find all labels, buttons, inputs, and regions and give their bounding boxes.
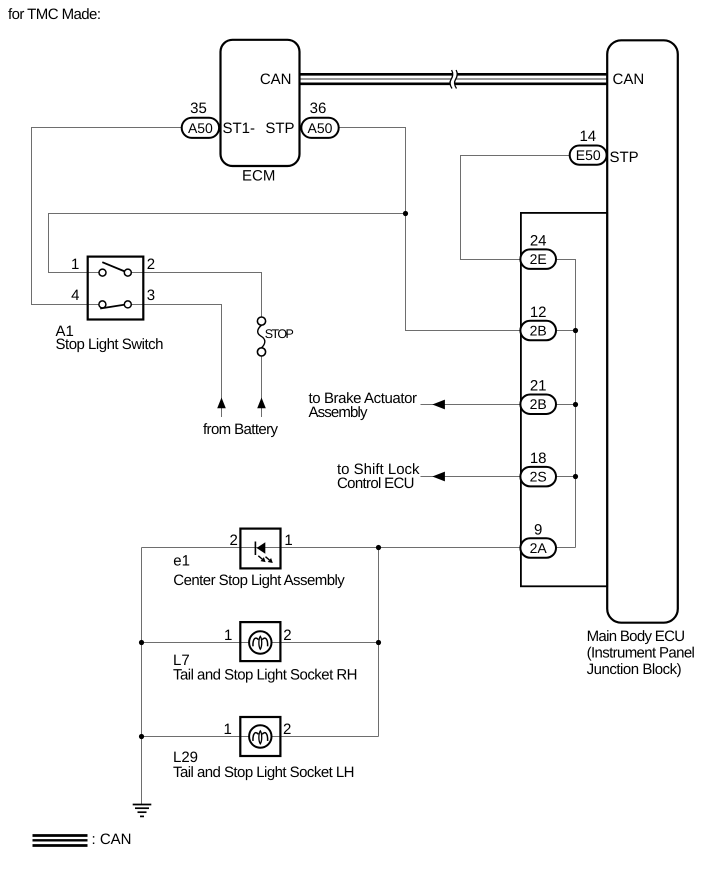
- svg-text:: CAN: : CAN: [92, 831, 132, 848]
- svg-text:Control ECU: Control ECU: [337, 475, 415, 492]
- svg-text:CAN: CAN: [260, 71, 292, 88]
- svg-text:Main Body ECU: Main Body ECU: [587, 628, 686, 645]
- svg-text:Junction Block): Junction Block): [587, 661, 682, 678]
- svg-text:2: 2: [230, 532, 238, 549]
- svg-text:from Battery: from Battery: [203, 421, 279, 438]
- svg-text:12: 12: [530, 304, 547, 321]
- svg-text:e1: e1: [173, 552, 190, 569]
- svg-text:A50: A50: [308, 120, 333, 136]
- svg-text:36: 36: [310, 100, 327, 117]
- svg-text:2E: 2E: [530, 251, 547, 267]
- svg-text:CAN: CAN: [613, 71, 645, 88]
- svg-text:2: 2: [147, 256, 155, 273]
- svg-text:9: 9: [534, 521, 542, 538]
- svg-text:1: 1: [224, 627, 232, 644]
- svg-text:2B: 2B: [530, 396, 547, 412]
- svg-text:A50: A50: [188, 120, 213, 136]
- svg-text:STOP: STOP: [265, 327, 294, 341]
- svg-text:Center Stop Light Assembly: Center Stop Light Assembly: [173, 572, 345, 589]
- svg-text:ECM: ECM: [242, 168, 275, 185]
- svg-text:24: 24: [530, 232, 547, 249]
- svg-text:STP: STP: [610, 149, 639, 166]
- svg-text:Tail and Stop Light Socket RH: Tail and Stop Light Socket RH: [173, 667, 358, 684]
- svg-text:2S: 2S: [530, 469, 547, 485]
- svg-text:Assembly: Assembly: [309, 404, 369, 421]
- svg-text:3: 3: [147, 287, 155, 304]
- svg-text:35: 35: [190, 100, 207, 117]
- svg-text:(Instrument Panel: (Instrument Panel: [587, 645, 695, 662]
- svg-text:2: 2: [283, 721, 291, 738]
- svg-text:21: 21: [530, 377, 547, 394]
- svg-text:2A: 2A: [530, 540, 548, 556]
- svg-text:1: 1: [71, 256, 79, 273]
- svg-text:2: 2: [283, 627, 291, 644]
- svg-text:1: 1: [224, 721, 232, 738]
- svg-text:E50: E50: [576, 147, 601, 163]
- svg-text:for TMC Made:: for TMC Made:: [8, 6, 101, 23]
- svg-text:Tail and Stop Light Socket LH: Tail and Stop Light Socket LH: [173, 764, 355, 781]
- svg-text:2B: 2B: [530, 323, 547, 339]
- svg-text:1: 1: [284, 532, 292, 549]
- svg-text:Stop Light Switch: Stop Light Switch: [56, 336, 164, 353]
- svg-text:ST1-: ST1-: [223, 120, 256, 137]
- svg-text:14: 14: [579, 128, 596, 145]
- svg-text:4: 4: [71, 287, 79, 304]
- svg-text:STP: STP: [265, 120, 294, 137]
- svg-text:18: 18: [530, 450, 547, 467]
